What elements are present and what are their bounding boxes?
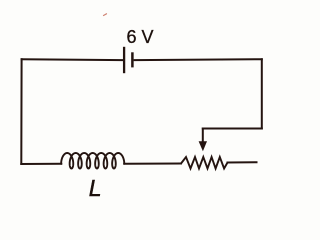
wiper arrowhead bbox=[199, 141, 207, 151]
battery B1 short plate (right) bbox=[131, 52, 134, 67]
svg-text:6 V: 6 V bbox=[127, 27, 154, 47]
battery B1 long plate (left) bbox=[123, 47, 125, 73]
scan speck (red mark) bbox=[104, 14, 107, 16]
svg-text:L: L bbox=[89, 175, 102, 201]
wire: left vertical bbox=[20, 59, 22, 164]
wire: bottom middle segment (inductor to resistor) bbox=[124, 163, 181, 165]
resistor R (rheostat) zigzag bbox=[181, 157, 228, 169]
wire: right vertical bbox=[261, 59, 263, 128]
wire: top-left horizontal segment bbox=[22, 58, 123, 61]
wiper arrow shaft bbox=[202, 129, 204, 144]
wire: bottom-right open-ended segment bbox=[228, 161, 257, 163]
wire: wiper horizontal segment bbox=[203, 128, 262, 130]
wire: bottom-left segment bbox=[21, 163, 61, 165]
wire: top-right horizontal segment bbox=[135, 58, 262, 61]
inductor L coil bbox=[61, 153, 124, 169]
